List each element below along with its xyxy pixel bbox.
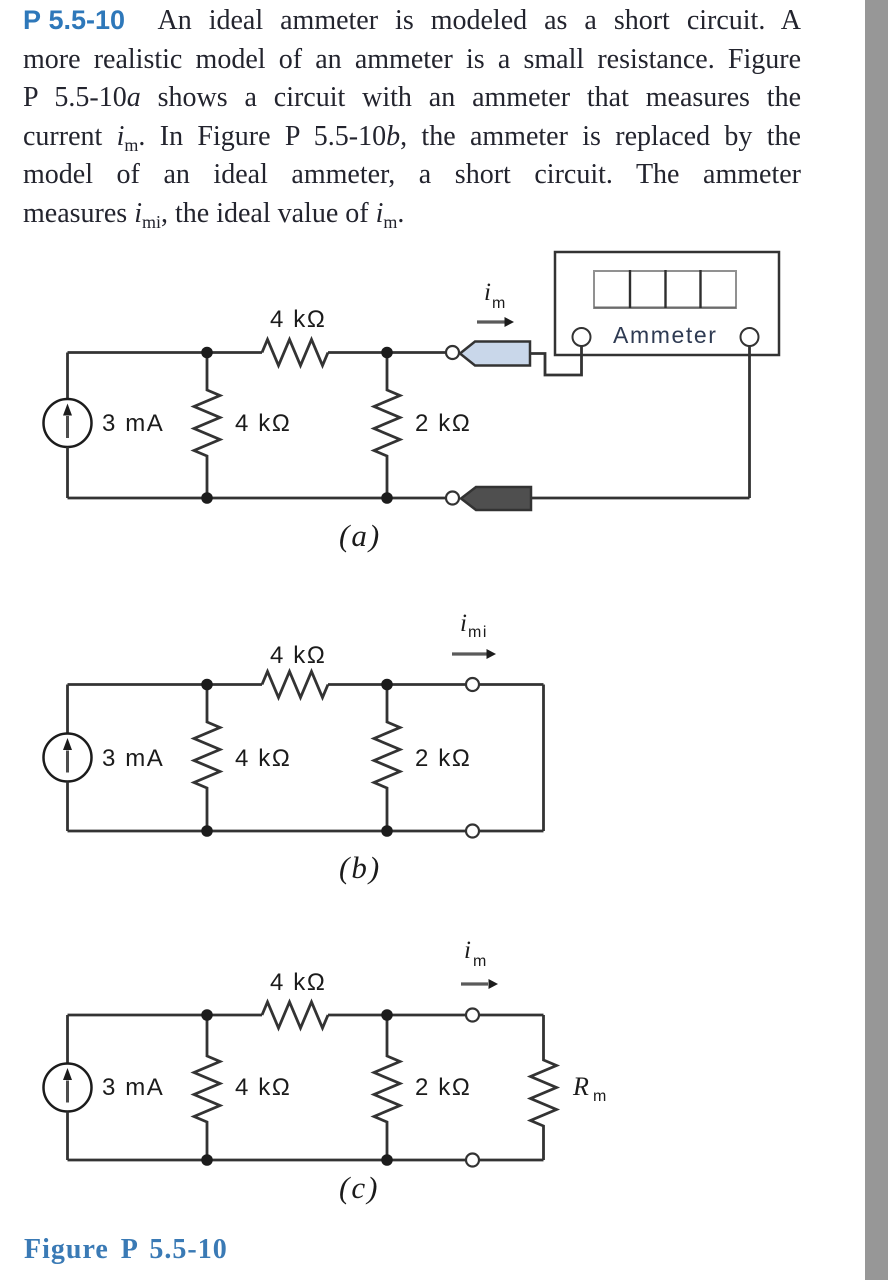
current source I2 3mA (b) xyxy=(44,734,92,782)
wire: (c) left vertical lower xyxy=(66,1112,69,1161)
svg-text:(c): (c) xyxy=(339,1170,379,1205)
resistor R9 2k ohm shunt (c) xyxy=(374,1015,400,1160)
wire: (a) left vertical lower xyxy=(66,447,69,498)
wire: (a) left vertical upper xyxy=(66,353,69,400)
paragraph: problem statement xyxy=(23,1,801,233)
resistor R1 4k ohm horizontal (a) xyxy=(262,340,328,366)
svg-text:mi: mi xyxy=(468,624,488,641)
wire: (c) bottom rail left segment xyxy=(68,1159,467,1162)
wire: ammeter right terminal down to bottom rail xyxy=(748,346,751,498)
current source I1 3mA (a) xyxy=(44,399,92,447)
wire: plug to ammeter left terminal xyxy=(530,346,582,375)
svg-text:2 kΩ: 2 kΩ xyxy=(415,745,471,772)
label: R_m (c) xyxy=(572,1072,608,1105)
current arrow i_mi (b) xyxy=(452,649,496,659)
wire: dark plug to right vertical xyxy=(531,497,750,500)
svg-text:3 mA: 3 mA xyxy=(102,745,164,772)
resistor R2 4k ohm shunt (a) xyxy=(194,353,220,499)
current arrow i_m (a) xyxy=(477,317,514,327)
svg-text:4 kΩ: 4 kΩ xyxy=(235,410,291,437)
resistor R5 4k ohm shunt (b) xyxy=(194,685,220,832)
ammeter terminal left xyxy=(573,328,591,346)
wire: (b) bottom rail right segment xyxy=(479,830,544,833)
node: (a) bottom-left junction xyxy=(201,492,213,504)
wire: (b) right vertical (short circuit) xyxy=(542,685,545,832)
svg-text:3 mA: 3 mA xyxy=(102,410,164,437)
ammeter display window xyxy=(594,270,736,308)
node: (b) bottom-right junction xyxy=(381,825,393,837)
page edge gray bar xyxy=(865,0,888,1280)
probe plug: negative lead (dark) xyxy=(461,487,531,510)
svg-text:4 kΩ: 4 kΩ xyxy=(235,745,291,772)
node: (c) bottom-left junction xyxy=(201,1154,213,1166)
node: (c) top-left junction xyxy=(201,1009,213,1021)
wire: (c) bottom rail right segment xyxy=(479,1159,544,1162)
wire: (a) bottom rail xyxy=(68,497,447,500)
label: i_m (a) xyxy=(484,279,507,312)
node: (c) top-right junction xyxy=(381,1009,393,1021)
resistor R4 4k ohm horizontal (b) xyxy=(262,672,328,698)
label: i_mi (b) xyxy=(460,610,488,641)
svg-text:4 kΩ: 4 kΩ xyxy=(235,1074,291,1101)
terminal: (b) bottom open circle xyxy=(466,825,479,838)
resistor R3 2k ohm shunt (a) xyxy=(374,353,400,499)
svg-text:2 kΩ: 2 kΩ xyxy=(415,410,471,437)
wire: (c) top rail right segment xyxy=(479,1014,544,1017)
svg-text:3 mA: 3 mA xyxy=(102,1074,164,1101)
wire: (b) top rail right segment xyxy=(479,683,544,686)
wire: (c) top rail left segment xyxy=(68,1014,263,1017)
probe plug: positive lead (light blue) xyxy=(460,342,530,366)
current source I3 3mA (c) xyxy=(44,1064,92,1112)
wire: (b) left vertical upper xyxy=(66,685,69,734)
wire: (a) top rail right segment xyxy=(328,351,446,354)
node: (b) top-left junction xyxy=(201,679,213,691)
svg-text:m: m xyxy=(473,953,488,970)
node: (c) bottom-right junction xyxy=(381,1154,393,1166)
terminal: (a) top open circle xyxy=(446,346,459,359)
label: i_m (c) xyxy=(464,937,488,970)
node: (a) top-right junction xyxy=(381,347,393,359)
node: (a) bottom-right junction xyxy=(381,492,393,504)
svg-text:4 kΩ: 4 kΩ xyxy=(270,642,326,669)
wire: (c) top rail middle segment xyxy=(328,1014,466,1017)
node: (b) top-right junction xyxy=(381,679,393,691)
svg-text:(b): (b) xyxy=(339,850,381,885)
wire: (c) left vertical upper xyxy=(66,1015,69,1064)
terminal: (a) bottom open circle xyxy=(446,492,459,505)
node: (a) top-left junction xyxy=(201,347,213,359)
ammeter terminal right xyxy=(741,328,759,346)
svg-text:(a): (a) xyxy=(339,518,381,553)
svg-text:2 kΩ: 2 kΩ xyxy=(415,1074,471,1101)
resistor Rm ammeter model (c) xyxy=(531,1015,557,1160)
svg-text:4 kΩ: 4 kΩ xyxy=(270,306,326,333)
svg-text:Ammeter: Ammeter xyxy=(613,322,718,348)
wire: (b) bottom rail left segment xyxy=(68,830,467,833)
ammeter box U1 xyxy=(555,252,779,355)
wire: (a) top rail left segment xyxy=(68,351,263,354)
svg-text:i: i xyxy=(464,937,473,964)
resistor R7 4k ohm horizontal (c) xyxy=(262,1002,328,1028)
terminal: (c) bottom open circle xyxy=(466,1154,479,1167)
figure caption: Figure P 5.5-10 xyxy=(24,1234,228,1266)
svg-text:R: R xyxy=(572,1072,590,1101)
node: (b) bottom-left junction xyxy=(201,825,213,837)
wire: (b) left vertical lower xyxy=(66,782,69,832)
resistor R6 2k ohm shunt (b) xyxy=(374,685,400,832)
wire: (b) top rail left segment xyxy=(68,683,263,686)
svg-text:m: m xyxy=(492,295,507,312)
svg-text:4 kΩ: 4 kΩ xyxy=(270,969,326,996)
svg-text:m: m xyxy=(593,1088,608,1105)
wire: (b) top rail middle segment xyxy=(328,683,466,686)
current arrow i_m (c) xyxy=(461,979,498,989)
terminal: (c) top open circle xyxy=(466,1009,479,1022)
terminal: (b) top open circle xyxy=(466,678,479,691)
resistor R8 4k ohm shunt (c) xyxy=(194,1015,220,1160)
